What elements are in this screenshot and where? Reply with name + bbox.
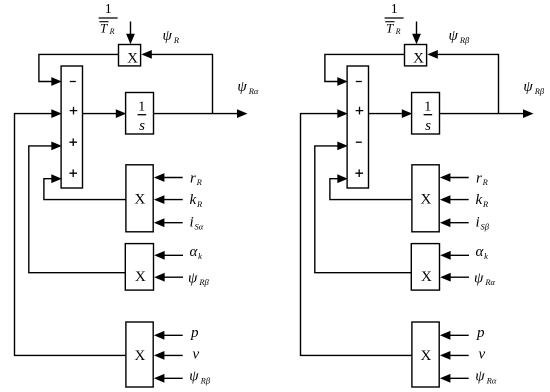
label: sign plus (input 4)	[69, 169, 77, 177]
svg-text:X: X	[127, 51, 138, 67]
label: sign plus (input 4)	[355, 169, 363, 177]
wire: input p into X3	[154, 331, 183, 340]
wire: input r_R into X1	[440, 173, 469, 182]
multiplier M1 (r_R k_R i_S)	[126, 165, 153, 232]
wire: input psi_R_beta into X2	[154, 273, 183, 282]
svg-text:1: 1	[424, 99, 431, 114]
label: feedback flux psi_R_beta	[449, 28, 471, 45]
wire: input alpha_k into X2	[440, 251, 469, 260]
label: fraction bar of 1/T_R	[385, 17, 404, 19]
label: r_R	[190, 170, 203, 187]
wire: input psi_R_beta into X3	[154, 374, 183, 383]
label: k_R	[190, 192, 203, 209]
wire: input i_S_alpha into X1	[154, 218, 183, 227]
summing junction S1	[61, 66, 82, 188]
wire: input k_R into X1	[154, 195, 183, 204]
wire: input nu into X3	[440, 351, 469, 360]
svg-text:ν: ν	[193, 346, 200, 362]
label: p	[476, 325, 485, 341]
svg-text:1: 1	[391, 2, 398, 17]
wire: summing output to integrator	[369, 109, 413, 118]
multiplier M6 (p nu flux)	[412, 322, 439, 387]
wire: input r_R into X1	[154, 173, 183, 182]
label: nu	[193, 346, 200, 362]
wire: integrator output psi_R_beta	[440, 109, 534, 118]
label: sign minus (input 1)	[356, 81, 362, 83]
label: sign plus (input 3)	[69, 138, 77, 146]
label: p	[190, 325, 199, 341]
multiplier M3 (p nu flux)	[126, 322, 153, 387]
label: overline of T	[385, 21, 394, 23]
svg-text:X: X	[134, 191, 145, 207]
svg-text:X: X	[134, 348, 145, 364]
label: sign plus (input 2)	[70, 107, 78, 115]
summing junction S2	[347, 66, 368, 188]
svg-text:X: X	[413, 51, 424, 67]
wire: output feedback up into top multiplier	[141, 50, 212, 114]
label: output flux psi_R_beta	[523, 79, 545, 96]
svg-text:p: p	[190, 325, 199, 341]
label: coefficient T_R denominator	[386, 21, 401, 36]
wire: summing output to integrator	[83, 109, 127, 118]
wire: X3 product to summing input 2	[15, 109, 126, 355]
wire: X2 product to summing input 3	[315, 142, 412, 273]
wire: X3 product to summing input 2	[301, 109, 412, 355]
label: sign plus (input 2)	[356, 107, 364, 115]
svg-text:X: X	[421, 269, 432, 285]
multiplier M2 (alpha_k x flux)	[125, 244, 153, 291]
label: alpha_k	[476, 244, 489, 261]
svg-text:s: s	[139, 118, 145, 134]
multiplier M5 (alpha_k x flux)	[411, 244, 439, 291]
wire: input k_R into X1	[440, 195, 469, 204]
svg-text:ν: ν	[479, 346, 486, 362]
label: output flux psi_R_alpha	[237, 79, 259, 96]
svg-text:s: s	[425, 118, 431, 134]
label: psi_R_alpha	[475, 368, 497, 385]
label: k_R	[476, 192, 489, 209]
label: sign minus (input 1)	[70, 81, 76, 83]
multiplier U2 (1/T_R x flux)	[405, 45, 427, 67]
label: i_S_alpha	[190, 215, 204, 232]
label: sign minus (input 3)	[356, 141, 362, 143]
multiplier M4 (r_R k_R i_S)	[412, 165, 439, 232]
svg-text:p: p	[476, 325, 485, 341]
wire: 1/T_R into top multiplier	[412, 22, 421, 45]
label: nu	[479, 346, 486, 362]
wire: input i_S_beta into X1	[440, 218, 469, 227]
wire: X1 product to summing input 4	[44, 174, 126, 199]
wire: input psi_R_alpha into X2	[440, 273, 469, 282]
label: feedback flux psi_R	[163, 28, 180, 45]
wire: output feedback up into top multiplier	[427, 50, 498, 114]
label: psi_R_alpha	[474, 270, 496, 287]
wire: X1 product to summing input 4	[330, 174, 412, 199]
wire: top multiplier output to summing minus input	[325, 54, 405, 86]
wire: integrator output psi_R_alpha	[154, 109, 248, 118]
wire: 1/T_R into top multiplier	[126, 22, 135, 45]
integrator I2 (1/s)	[412, 93, 440, 135]
label: overline of T	[99, 21, 108, 23]
integrator I1 (1/s)	[126, 93, 154, 135]
wire: input p into X3	[440, 331, 469, 340]
svg-text:X: X	[420, 191, 431, 207]
label: coefficient T_R denominator	[100, 21, 115, 36]
label: r_R	[476, 170, 489, 187]
label: psi_R_beta	[188, 270, 210, 287]
label: i_S_beta	[476, 215, 490, 232]
wire: X2 product to summing input 3	[29, 142, 126, 273]
wire: input psi_R_alpha into X3	[440, 374, 469, 383]
svg-text:1: 1	[138, 99, 145, 114]
wire: top multiplier output to summing minus input	[39, 54, 119, 86]
label: psi_R_beta	[189, 368, 211, 385]
wire: input nu into X3	[154, 351, 183, 360]
svg-text:X: X	[420, 348, 431, 364]
svg-text:1: 1	[105, 2, 112, 17]
label: coefficient 1/T_R numerator	[105, 2, 112, 17]
svg-text:X: X	[135, 269, 146, 285]
label: coefficient 1/T_R numerator	[391, 2, 398, 17]
multiplier U1 (1/T_R x flux)	[119, 45, 141, 67]
wire: input alpha_k into X2	[154, 251, 183, 260]
label: alpha_k	[190, 244, 203, 261]
label: fraction bar of 1/T_R	[99, 17, 118, 19]
